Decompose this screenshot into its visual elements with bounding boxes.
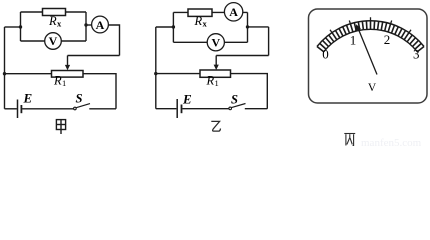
ammeter A yi	[224, 3, 242, 21]
wire wiper horizontal jia	[68, 55, 120, 57]
wire junction to ammeter jia	[86, 24, 92, 26]
wire R1 left jia	[5, 73, 52, 75]
wire ammeter out jia	[108, 25, 119, 56]
svg-text:0: 0	[322, 46, 329, 61]
resistor Rx yi	[188, 9, 212, 16]
wire battery to switch jia	[22, 108, 74, 110]
battery E yi	[176, 99, 178, 118]
switch S jia	[74, 107, 77, 110]
svg-text:1: 1	[215, 78, 219, 88]
svg-text:1: 1	[62, 78, 66, 88]
label bing (Chinese char)	[344, 134, 355, 146]
svg-text:3: 3	[413, 46, 420, 61]
svg-text:A: A	[229, 5, 238, 19]
meter panel box bing	[309, 9, 428, 103]
wire stub right yi	[248, 26, 269, 28]
resistor Rx jia	[43, 9, 66, 16]
svg-text:R: R	[194, 14, 203, 28]
meter scale inner arc	[324, 29, 418, 51]
svg-text:R: R	[206, 74, 215, 88]
svg-text:2: 2	[384, 32, 391, 47]
svg-text:manfen5.com: manfen5.com	[361, 137, 422, 147]
svg-text:E: E	[182, 92, 192, 107]
wiper arrowhead jia	[65, 65, 70, 70]
meter needle	[358, 29, 377, 75]
wire stub left yi	[156, 26, 174, 28]
battery E jia	[17, 100, 19, 119]
svg-text:R: R	[48, 14, 57, 28]
svg-text:E: E	[23, 91, 33, 106]
node junction dots jia	[19, 25, 22, 28]
wire top branch jia	[21, 11, 87, 13]
wire left inner vertical yi	[172, 12, 174, 42]
meter scale ticks	[317, 21, 424, 52]
svg-text:A: A	[96, 18, 105, 32]
wire stub left jia	[5, 26, 21, 28]
wire wiper vertical right yi	[268, 27, 270, 56]
svg-text:R: R	[53, 74, 62, 88]
wire R1 left yi	[156, 73, 200, 75]
voltmeter V yi	[207, 34, 224, 51]
wiper arrowhead yi	[214, 65, 219, 70]
switch S yi	[229, 107, 232, 110]
rheostat R1 jia	[52, 71, 84, 78]
svg-text:S: S	[76, 92, 83, 106]
wire bottom row yi	[156, 108, 177, 110]
wire top branch yi	[173, 11, 247, 13]
wire left inner vertical jia	[20, 12, 22, 41]
rheostat R1 yi	[200, 70, 231, 77]
svg-text:S: S	[231, 93, 238, 107]
wire right inner vertical yi	[247, 12, 249, 42]
wire outer left vertical jia	[4, 27, 6, 109]
svg-text:V: V	[368, 82, 377, 94]
svg-text:x: x	[57, 19, 62, 29]
wire bottom row jia	[5, 108, 17, 110]
svg-text:V: V	[211, 36, 220, 50]
voltmeter V jia	[45, 33, 62, 50]
wire voltmeter branch jia	[21, 40, 87, 42]
svg-text:1: 1	[350, 33, 357, 48]
wire R1 right yi	[231, 74, 268, 109]
wire wiper vertical jia	[67, 56, 69, 67]
node junction dots yi	[172, 25, 175, 28]
meter scale spurs	[330, 17, 411, 32]
wire right inner vertical jia	[85, 12, 87, 41]
wire wiper horizontal yi	[216, 55, 268, 57]
wire outer left vertical yi	[155, 27, 157, 109]
wire switch to corner yi	[245, 108, 267, 110]
wire battery to switch yi	[182, 108, 229, 110]
label jia (Chinese char)	[56, 120, 65, 134]
label yi (Chinese char)	[211, 121, 220, 131]
wire voltmeter branch yi	[173, 41, 247, 43]
wire wiper arrow stem yi	[215, 56, 217, 67]
meter scale outer arc	[317, 21, 424, 47]
wire R1 right jia	[83, 74, 116, 109]
wire switch to corner jia	[89, 108, 116, 110]
ammeter A jia	[92, 16, 109, 33]
svg-text:V: V	[49, 34, 58, 48]
svg-text:x: x	[203, 19, 208, 29]
